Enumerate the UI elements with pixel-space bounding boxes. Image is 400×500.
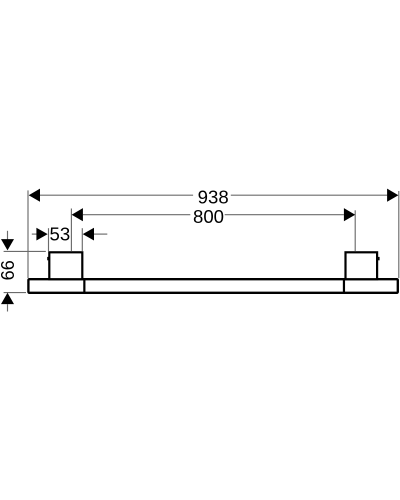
arrowhead 66 bottom [1,293,14,304]
extension stub 53 left [48,228,50,251]
left bracket detail notch [47,257,49,260]
arrowhead 800 right [344,208,355,221]
left holder joint line [83,278,85,294]
arrowhead 800 left [72,208,83,221]
dimension line 938 left part [40,194,193,196]
dimension 66 bottom tail [7,304,9,311]
extension line left 800 [70,209,72,252]
dimension line 800 left part [83,214,191,216]
arrowhead 66 top [1,239,14,250]
extension line left 938 [27,190,29,278]
dimension line 800 right part [225,214,344,216]
dimension line 938 right part [231,194,387,196]
arrowhead 53 left [36,228,47,241]
towel bar body [28,279,397,293]
right holder joint line [343,278,345,294]
extension line right 938 [398,191,400,278]
svg-text:938: 938 [198,186,229,207]
svg-text:800: 800 [193,206,224,227]
arrowhead 938 right [387,189,398,202]
extension line right 800 [354,210,356,251]
arrowhead 938 left [29,189,40,202]
extension line 66 top [4,250,46,252]
dimension 53 left tail [32,233,37,235]
dimension 66 top tail [7,231,9,240]
svg-text:66: 66 [0,260,18,280]
extension line 66 bottom [4,292,26,294]
arrowhead 53 right [83,228,94,241]
left wall bracket [49,252,82,279]
dimension 53 right tail [94,233,107,235]
right wall bracket [346,252,378,279]
svg-text:53: 53 [50,224,71,245]
right bracket detail notch [378,257,380,260]
extension stub 53 right [81,228,83,251]
